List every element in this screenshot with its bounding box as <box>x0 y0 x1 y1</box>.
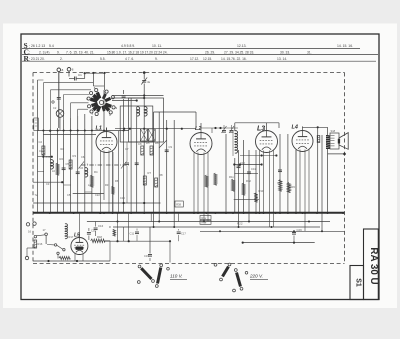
svg-text:9.: 9. <box>155 57 158 61</box>
chassis dashed boundary top <box>33 72 345 74</box>
wire x150 vertical <box>149 227 151 254</box>
svg-text:R7: R7 <box>148 171 152 175</box>
band switch S1 rotary wafer <box>87 88 115 115</box>
resistor R9 <box>205 175 208 187</box>
dial lamp boxed label left <box>34 118 39 131</box>
tube L1 <box>96 132 117 153</box>
svg-text:4 7. 6.: 4 7. 6. <box>125 57 134 61</box>
resistor R18 zigzag <box>91 239 105 243</box>
bus left segment y241 <box>105 240 170 242</box>
wire if2 vertical 5 <box>248 150 250 222</box>
resistor small right column <box>317 136 320 143</box>
wire antenna down <box>58 72 60 128</box>
svg-text:R14: R14 <box>278 181 283 185</box>
wire right tall a <box>317 127 319 213</box>
resistor R4 <box>90 175 93 187</box>
wire if2 vertical 1 <box>234 158 236 213</box>
svg-text:R2: R2 <box>60 157 64 161</box>
svg-text:R12: R12 <box>246 179 251 183</box>
output transformer S18 winding <box>326 135 330 149</box>
capacitor C10 <box>87 232 91 234</box>
wire L5 top feed <box>78 213 80 238</box>
svg-text:14. 15. 16.: 14. 15. 16. <box>337 44 353 48</box>
wire stub x123 <box>123 227 125 241</box>
capacitor C9 <box>165 149 169 151</box>
node antenna line tap <box>143 71 146 74</box>
resistor zigzag lower <box>59 256 70 259</box>
svg-text:C29: C29 <box>297 228 303 232</box>
svg-text:2. 3.(4): 2. 3.(4) <box>39 51 49 55</box>
svg-text:27. 29. 34.25. 28 33.: 27. 29. 34.25. 28 33. <box>224 51 254 55</box>
svg-text:R16: R16 <box>38 242 43 246</box>
wire L2 legs <box>193 153 195 214</box>
wire left horizontal bus a <box>38 130 130 132</box>
resistor R12 <box>242 183 245 195</box>
wire L4 anode link <box>302 126 304 129</box>
svg-text:S18: S18 <box>331 129 336 133</box>
wire left vertical 8 <box>84 114 86 213</box>
bus line 2 <box>87 221 330 223</box>
svg-text:7. 6. 15. 19. 40. 21.: 7. 6. 15. 19. 40. 21. <box>66 51 94 55</box>
resistor R10 <box>214 173 217 185</box>
wire l4 vertical a <box>295 150 297 213</box>
left block tie a <box>64 184 71 186</box>
mains plug 220V pin bar 2 <box>237 273 241 287</box>
svg-text:R38: R38 <box>176 203 181 207</box>
wire fan risers <box>50 90 52 135</box>
wire mid vertical 5 <box>153 112 155 227</box>
resistor small x114 <box>113 229 116 236</box>
T1 crossed coil box a <box>140 129 147 141</box>
wire L3 legs <box>259 151 261 214</box>
node junction top B <box>92 72 94 74</box>
wire long horizontal y203 <box>33 202 161 204</box>
svg-text:12.13.: 12.13. <box>237 44 246 48</box>
crystal detector small tube <box>56 110 64 118</box>
svg-text:C8: C8 <box>138 142 142 146</box>
wire transformer down <box>327 149 329 213</box>
svg-text:C10: C10 <box>91 229 96 233</box>
svg-text:L1: L1 <box>96 126 102 132</box>
svg-text:R15: R15 <box>290 185 295 189</box>
chassis dashed boundary right <box>344 73 346 264</box>
plug 110V pin circles 1 <box>138 265 141 268</box>
node switch feed <box>103 94 105 96</box>
resistor R5 <box>141 146 144 155</box>
svg-text:17.12.: 17.12. <box>190 57 199 61</box>
antenna terminal <box>57 68 61 72</box>
svg-text:R: R <box>109 225 111 229</box>
svg-text:a: a <box>62 68 64 72</box>
svg-text:17: 17 <box>43 228 47 232</box>
svg-text:L5: L5 <box>74 233 80 239</box>
small coupling caps L2 <box>222 130 226 132</box>
svg-text:R5: R5 <box>146 141 150 145</box>
svg-text:C5: C5 <box>66 162 70 166</box>
coil L osc <box>51 160 54 169</box>
wire l3 area tie y164 <box>234 164 261 166</box>
svg-text:L2: L2 <box>195 126 201 132</box>
resistor R16 vertical <box>34 240 37 248</box>
wire left horizontal bus b <box>43 134 96 136</box>
svg-text:R3: R3 <box>73 154 77 158</box>
svg-text:C5: C5 <box>67 193 71 197</box>
wire mid vertical 2 <box>130 98 132 213</box>
svg-text:10. 11.: 10. 11. <box>152 44 162 48</box>
switch contact 17 <box>45 233 48 236</box>
svg-text:R22: R22 <box>237 222 243 226</box>
svg-text:L0: L0 <box>52 169 55 173</box>
wire left vertical 7 <box>77 116 79 213</box>
wire mid vertical 6 <box>158 112 160 222</box>
svg-text:L3: L3 <box>257 126 265 133</box>
svg-text:5.4: 5.4 <box>49 44 54 48</box>
bus line 3 <box>113 226 320 228</box>
node T1 top <box>143 94 145 96</box>
svg-text:R2: R2 <box>61 147 65 151</box>
svg-text:C3: C3 <box>46 182 50 186</box>
wire left vertical 9 <box>91 116 93 213</box>
svg-text:30. 33.: 30. 33. <box>280 51 290 55</box>
svg-text:26. 29.: 26. 29. <box>205 51 215 55</box>
resistor R6 <box>150 146 153 155</box>
cap below L1 <box>125 162 129 164</box>
wire left vertical 4 <box>57 128 59 213</box>
svg-text:L4: L4 <box>292 125 298 131</box>
svg-text:R3: R3 <box>105 183 109 187</box>
plug 220V circles 2 <box>234 269 237 272</box>
svg-text:C11: C11 <box>130 232 135 236</box>
svg-text:C17: C17 <box>181 232 186 236</box>
trimmer C4 <box>122 95 126 97</box>
svg-text:R1v: R1v <box>202 216 207 220</box>
mains plug 110V pin bar 1 <box>141 268 151 279</box>
svg-text:C21: C21 <box>39 149 44 153</box>
svg-text:12.15.: 12.15. <box>203 57 212 61</box>
wire L1 anode <box>106 128 108 132</box>
svg-text:15.80 1.0. 17. 16.2 18 19 17.: 15.80 1.0. 17. 16.2 18 19 17.20 22 24 24… <box>107 51 168 55</box>
wire L3 anode <box>266 123 268 127</box>
relay boxes R1v R1e <box>200 216 211 220</box>
wire left vertical 6 <box>70 118 72 213</box>
plug 110V pin circles 2 <box>160 264 163 267</box>
pickup terminal 3 <box>25 256 28 259</box>
svg-text:26 1.2 13: 26 1.2 13 <box>31 44 45 48</box>
capacitor C14 <box>278 169 282 171</box>
capacitor C16 <box>94 227 98 229</box>
wire fan 1 <box>43 82 93 84</box>
capacitor C8 <box>135 162 139 164</box>
svg-text:14. 15.76. 22. 16.: 14. 15.76. 22. 16. <box>221 57 247 61</box>
svg-text::: : <box>29 50 30 55</box>
wire mid horizontal y182 <box>33 181 62 183</box>
left block tie b <box>85 191 92 193</box>
svg-text:S1: S1 <box>355 278 362 287</box>
coil T1 secondary <box>144 107 147 116</box>
wire L2-L3 top link <box>235 122 279 124</box>
tuning cap arrow left <box>79 162 85 169</box>
wire L5 legs <box>74 254 76 262</box>
wire mid vertical 7 <box>166 120 168 213</box>
switch feed lines right <box>112 95 164 97</box>
wire if2 vertical 6 <box>255 150 257 213</box>
svg-text:C2: C2 <box>39 140 43 144</box>
wire x170 vertical short <box>169 241 171 262</box>
chassis dashed boundary bottom <box>33 263 345 265</box>
svg-text:23 21 20.: 23 21 20. <box>31 57 45 61</box>
svg-text:C2: C2 <box>53 106 57 110</box>
wire mid horizontal y193 <box>73 192 104 194</box>
resistor R13 <box>254 193 257 202</box>
svg-text:13. 14.: 13. 14. <box>277 57 287 61</box>
svg-text:R6: R6 <box>155 141 159 145</box>
wire l3 vertical b <box>287 134 289 213</box>
svg-text:R8: R8 <box>159 173 163 177</box>
svg-text:e: e <box>72 68 74 72</box>
svg-text:RA 30 U: RA 30 U <box>368 247 379 284</box>
svg-text:9.: 9. <box>57 51 60 55</box>
svg-text:C15: C15 <box>120 196 125 200</box>
wire earth down <box>68 71 70 76</box>
tuning gang dash-dot link <box>81 164 129 166</box>
svg-text:R4: R4 <box>94 170 98 174</box>
wire right tall b <box>321 135 323 231</box>
border frame <box>21 34 379 300</box>
svg-text:5.5.: 5.5. <box>100 57 106 61</box>
wire tie y156 dots <box>38 156 52 158</box>
tuning cap arrow right <box>121 162 127 169</box>
bus line 4 <box>200 230 345 232</box>
svg-text:4.9 5 8 9.: 4.9 5 8 9. <box>121 44 135 48</box>
wire stub x151 <box>150 213 152 222</box>
contact chain <box>54 244 56 246</box>
wire if2 vertical 3 <box>238 150 240 227</box>
svg-text:R11: R11 <box>229 175 234 179</box>
resistor R14 <box>279 180 282 192</box>
svg-text:2.: 2. <box>60 57 63 61</box>
capacitor C1 <box>74 77 76 81</box>
resistor R8 <box>155 178 158 187</box>
wire horizontal L1-L2 link lower <box>115 128 196 130</box>
resistor R15 <box>287 182 290 192</box>
parts table rule under S row <box>22 48 360 50</box>
pickup terminal 1 <box>26 223 29 226</box>
loudspeaker magnet <box>338 139 340 144</box>
volume pot coil <box>65 224 67 239</box>
wire short horizontal y199 <box>234 198 259 200</box>
grid cap wire <box>93 85 104 87</box>
loudspeaker cone <box>339 133 348 150</box>
resistor below L1 <box>112 186 115 194</box>
wire if2 vertical 2 <box>225 134 227 213</box>
wire L2 anode <box>200 123 202 129</box>
title block RA 30 U box <box>364 229 379 300</box>
wire l3 area tie y173 <box>234 173 258 175</box>
wire mid vertical 8 <box>173 120 175 227</box>
resistor R11 <box>231 179 234 191</box>
parts table rule under C row <box>22 54 378 56</box>
svg-text:R1e: R1e <box>202 221 207 225</box>
svg-text:R18: R18 <box>97 235 102 239</box>
wire mid vertical 3 <box>136 107 138 213</box>
wire fan 3 <box>64 94 89 96</box>
wire fan 4 <box>71 102 89 104</box>
wire speaker return <box>328 153 345 155</box>
trimmer capacitor 4x <box>142 80 146 82</box>
wire fan 2 <box>51 89 92 91</box>
earth terminal <box>67 68 71 72</box>
svg-text:C1: C1 <box>78 73 82 77</box>
capacitor C29 <box>292 232 296 234</box>
wire left vertical 3 <box>50 135 52 214</box>
IF transformer T2 coil <box>235 131 238 153</box>
wire l3 area tie y155 <box>240 155 276 157</box>
wire L1 legs <box>100 151 102 214</box>
node junction top A <box>84 72 86 74</box>
wire if2 vertical 4 <box>243 140 245 213</box>
output transformer S18 body <box>330 133 339 149</box>
capacitor C5 <box>62 167 66 169</box>
resistor R23 left <box>42 146 45 155</box>
mains plug 220V pin bar 1 <box>223 267 229 277</box>
svg-text:31.: 31. <box>307 51 312 55</box>
capacitor C2 inline antenna <box>57 97 61 99</box>
wire left vertical 1 <box>37 80 39 213</box>
boxed label R38 <box>175 201 183 207</box>
pot arrow mid <box>159 141 166 149</box>
wire left vertical 5 <box>63 120 65 213</box>
wire horizontal L1-L2 link upper <box>154 111 196 113</box>
capacitor C12 <box>237 165 241 167</box>
pickup terminal 2 <box>33 222 36 225</box>
tube L5 rectifier <box>71 238 88 255</box>
title block S1 box <box>350 266 364 300</box>
tube L3 <box>256 131 278 153</box>
wire l3 vertical a <box>279 134 281 213</box>
wire mid vertical 4 <box>143 96 145 214</box>
switch arm <box>45 236 47 244</box>
T1 crossed coil box b <box>148 129 155 141</box>
coil T1 primary <box>137 107 140 116</box>
wire below L1 extra a <box>117 131 119 213</box>
node anode feed <box>317 126 319 128</box>
resistor R3 <box>69 160 72 169</box>
svg-text:C6: C6 <box>81 155 85 159</box>
tube L2 <box>190 133 212 155</box>
svg-text:C13: C13 <box>251 167 256 171</box>
svg-text:C9: C9 <box>169 145 173 149</box>
tube L4 <box>292 131 313 152</box>
coil left small <box>85 168 88 177</box>
wire left vertical 2 <box>42 131 44 214</box>
resistor R2 <box>56 163 59 175</box>
IF transformer T1 inner frame <box>120 106 153 142</box>
bus junction dots <box>49 212 51 214</box>
mains plug 110V pin bar 2 <box>158 268 161 284</box>
svg-text:220 V.: 220 V. <box>249 274 263 279</box>
capacitor C11 <box>135 231 139 233</box>
svg-text:16: 16 <box>28 230 32 234</box>
capacitor C17 mid <box>177 231 181 233</box>
bus line 5 <box>243 242 315 244</box>
chassis bus main <box>33 212 345 214</box>
capacitor C13 <box>247 171 251 173</box>
node fan junction <box>49 130 51 132</box>
wire stub x178 <box>178 213 180 222</box>
wire lower bus <box>33 260 110 262</box>
wire pickup links <box>26 248 28 256</box>
svg-text:C16: C16 <box>98 224 104 228</box>
resistor R7 <box>143 176 146 185</box>
svg-text:110 V.: 110 V. <box>170 274 183 279</box>
wire mid vertical 1 <box>123 131 125 214</box>
wire below L1 extra b <box>112 152 114 213</box>
svg-text:C7: C7 <box>125 147 129 151</box>
wire switch to L1 <box>103 90 105 132</box>
wire top tie <box>85 72 105 74</box>
capacitor C6 <box>76 171 80 173</box>
chassis dashed boundary left <box>32 73 34 264</box>
svg-text:4x: 4x <box>147 80 151 84</box>
wire fan 5 <box>78 108 88 110</box>
left block tie c <box>38 170 45 172</box>
wire L4 legs <box>295 150 297 214</box>
capacitor C19 bottom <box>148 254 152 256</box>
IF transformer T1 frame <box>129 98 164 142</box>
plug 220V circles 1 <box>228 263 231 266</box>
node junction top C <box>103 72 105 74</box>
svg-text:C19: C19 <box>144 254 149 258</box>
switch contact 16 <box>34 235 37 238</box>
parts table rule under R row <box>22 60 376 62</box>
